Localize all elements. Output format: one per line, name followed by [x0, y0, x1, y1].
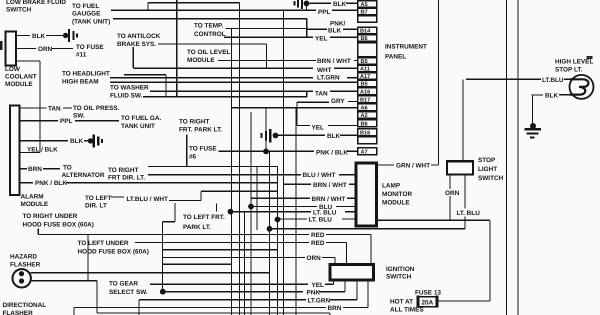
svg-text:TO HEADLIGHT: TO HEADLIGHT: [62, 71, 110, 78]
svg-text:YEL: YEL: [312, 282, 325, 289]
ground G3: [262, 129, 271, 143]
label TO FUEL GA. TANK UNIT: [121, 115, 161, 130]
wire dash to left dir lt: [111, 196, 124, 198]
svg-text:PARK LT.: PARK LT.: [183, 224, 211, 231]
wire PNK/BLK stub to B14: [343, 28, 358, 30]
wire LT. BLU pin1: [231, 211, 357, 213]
wire YEL to B6: [330, 36, 358, 38]
svg-text:A6: A6: [361, 106, 368, 112]
label PNK/ BLK: [328, 21, 345, 35]
svg-text:PNK/: PNK/: [330, 21, 345, 28]
wire TAN: [20, 107, 73, 109]
svg-text:YEL: YEL: [315, 36, 328, 43]
svg-text:BLK: BLK: [327, 133, 341, 140]
svg-text:ALARM: ALARM: [21, 194, 44, 201]
svg-text:YEL: YEL: [312, 125, 325, 132]
alarm module label: [21, 194, 49, 209]
svg-text:BRN: BRN: [328, 305, 342, 312]
svg-text:TO FUEL: TO FUEL: [72, 3, 99, 10]
wire to B5 row: [110, 81, 358, 83]
ground G4: [295, 0, 303, 9]
node LT.BLU junction: [228, 209, 234, 215]
svg-text:TO RIGHT: TO RIGHT: [179, 119, 210, 126]
wire PPL stub: [332, 9, 358, 11]
node PNK junction: [160, 289, 166, 295]
pin labels A5 B7 B14 B6 B5 A11 A17 B5 A16 B17 A6 A2 B6 B16 A7: [360, 2, 371, 156]
wire YEL lower to B6: [297, 125, 358, 127]
svg-text:B5: B5: [361, 82, 368, 88]
svg-text:TO GEAR: TO GEAR: [109, 281, 138, 288]
svg-text:BRN / WHT: BRN / WHT: [313, 182, 347, 189]
wire ORN ignition: [163, 258, 335, 265]
label TO LEFT FRT. PARK LT.: [183, 214, 225, 231]
svg-text:LT.GRN: LT.GRN: [317, 75, 340, 82]
wire LT. BLU out pin: [464, 175, 466, 229]
lamp monitor module: [356, 163, 377, 226]
wire washer to TAN: [150, 90, 313, 92]
svg-text:IGNITION: IGNITION: [386, 266, 415, 273]
label TO HEADLIGHT HIGH BEAM: [62, 71, 110, 86]
label HAZARD FLASHER: [10, 254, 41, 269]
wire firewall line 2: [517, 0, 519, 315]
label TO FUSE #6: [189, 146, 217, 161]
svg-text:COOLANT: COOLANT: [5, 74, 37, 81]
wire YEL/BLK: [20, 152, 41, 154]
wire G4 stem: [306, 3, 308, 10]
svg-text:DIR. LT: DIR. LT: [85, 203, 107, 210]
svg-text:LAMP: LAMP: [382, 183, 401, 190]
node H2 junction: [267, 226, 273, 232]
wire BLK alarm: [20, 140, 89, 142]
svg-text:MODULE: MODULE: [21, 201, 49, 208]
svg-text:RED: RED: [311, 232, 325, 239]
wire bus x244: [244, 212, 246, 315]
svg-text:LT.BLU / WHT: LT.BLU / WHT: [127, 196, 169, 203]
wire lt.blu/wht riser: [169, 191, 278, 200]
svg-text:HAZARD: HAZARD: [10, 254, 37, 261]
label HOT AT ALL TIMES: [390, 299, 424, 314]
wire to fuse 6: [218, 150, 266, 152]
svg-text:BRN: BRN: [28, 166, 42, 173]
wire switch top pin LT.BLU in: [462, 79, 464, 161]
svg-text:TO RIGHT UNDER: TO RIGHT UNDER: [23, 213, 78, 220]
wire ORN from low coolant module: [16, 48, 73, 50]
svg-text:GRY: GRY: [331, 98, 345, 105]
wire TAN stub to A16: [330, 90, 358, 92]
wire GRN/WHT: [377, 0, 439, 165]
svg-text:BLK: BLK: [70, 138, 84, 145]
wire bus x296: [295, 108, 297, 315]
wire hazard top: [31, 272, 270, 274]
label DIRECTIONAL FLASHER: [3, 302, 47, 315]
svg-text:ALL TIMES: ALL TIMES: [390, 307, 424, 314]
svg-text:TO RIGHT: TO RIGHT: [108, 167, 139, 174]
svg-text:HOT AT: HOT AT: [390, 299, 413, 306]
wire RED 2: [135, 243, 347, 265]
svg-text:BLU / WHT: BLU / WHT: [303, 172, 336, 179]
wire bus x266: [265, 108, 267, 152]
svg-text:LT. BLU: LT. BLU: [309, 217, 333, 224]
wire WHT stub to A11: [334, 67, 358, 69]
svg-text:PNK / BLK: PNK / BLK: [35, 180, 67, 187]
svg-text:#11: #11: [76, 52, 87, 59]
wire BRN ignition: [74, 280, 368, 315]
wire link y264: [163, 263, 232, 265]
wire firewall line 1: [506, 0, 508, 315]
svg-text:DIRECTIONAL: DIRECTIONAL: [3, 302, 47, 309]
instrument panel connector boxes: [358, 1, 377, 155]
wire to headlight: [124, 75, 166, 97]
svg-text:TAN: TAN: [48, 106, 61, 113]
wire bus x283: [283, 10, 285, 315]
svg-text:WHT: WHT: [317, 67, 332, 74]
svg-text:A16: A16: [360, 90, 370, 96]
label TO ALTERNATOR: [62, 165, 105, 180]
wire LT.GRN ignition: [139, 280, 357, 315]
svg-text:SWITCH: SWITCH: [6, 7, 32, 14]
svg-text:B7: B7: [361, 10, 368, 16]
svg-text:INSTRUMENT: INSTRUMENT: [385, 44, 427, 51]
svg-text:TO WASHER: TO WASHER: [110, 85, 149, 92]
wire gear bracket riser: [87, 235, 89, 281]
wire LT.GRN stub to A17: [347, 77, 358, 79]
svg-text:B6: B6: [361, 36, 368, 42]
svg-text:FLUID SW.: FLUID SW.: [110, 93, 143, 100]
wire to temp: [226, 28, 307, 30]
wire BLK high stop: [532, 95, 570, 124]
svg-text:PPL: PPL: [318, 9, 331, 16]
label TO ANTILOCK BRAKE SYS.: [117, 33, 161, 48]
wire BRN/WHT pin1: [284, 183, 357, 185]
svg-text:PANEL: PANEL: [385, 54, 406, 61]
node fuse6 junction: [263, 149, 269, 155]
wire BRN/WHT pin2: [251, 197, 356, 199]
svg-text:TO TEMP.: TO TEMP.: [194, 23, 223, 30]
wire ORN pin: [449, 175, 451, 221]
svg-text:GAUGGE: GAUGGE: [72, 11, 101, 18]
wire to LT.GRN: [110, 77, 313, 79]
svg-text:PNK / BLK: PNK / BLK: [316, 149, 348, 156]
svg-text:STOP LT.: STOP LT.: [555, 67, 583, 74]
ground G2: [88, 135, 102, 148]
wire link y249: [163, 249, 278, 251]
svg-text:HIGH BEAM: HIGH BEAM: [62, 79, 99, 86]
svg-text:MODULE: MODULE: [187, 57, 215, 64]
wire PNK ignition: [163, 280, 346, 292]
svg-text:A17: A17: [360, 74, 370, 80]
label TO OIL LEVEL MODULE: [187, 49, 231, 64]
svg-text:B17: B17: [360, 98, 370, 104]
wire bus x277: [277, 167, 279, 315]
svg-text:PNK: PNK: [307, 289, 321, 296]
wire LT.BLU high stop: [466, 78, 570, 80]
wire BRN/WHT stub: [354, 60, 358, 62]
wire PNK / BLK alarm: [20, 182, 278, 184]
svg-text:SWITCH: SWITCH: [386, 274, 412, 281]
svg-text:BLK: BLK: [545, 93, 559, 100]
svg-text:TO LEFT: TO LEFT: [85, 195, 112, 202]
low brake fluid switch label: [6, 0, 66, 14]
scan mark right edge: [587, 56, 593, 59]
wire RED 1 long: [38, 228, 371, 264]
wire BLU/WHT pin: [339, 174, 356, 176]
wire YEL ignition / gear select: [150, 280, 334, 284]
svg-text:LOW BRAKE FLUID: LOW BRAKE FLUID: [6, 0, 66, 6]
wire BLU pin: [251, 206, 356, 208]
svg-text:TO LEFT UNDER: TO LEFT UNDER: [78, 240, 129, 247]
svg-text:B14: B14: [360, 29, 371, 35]
wire fuel gauge upper branch: [148, 3, 240, 11]
wire park lt bracket: [148, 134, 278, 166]
wire LT. BLU pin2: [278, 218, 357, 220]
wire BLK to A5: [310, 2, 358, 4]
label TO RIGHT UNDER HOOD FUSE BOX (60A): [23, 213, 94, 229]
svg-text:TO FUEL GA.: TO FUEL GA.: [121, 115, 161, 122]
svg-text:LIGHT: LIGHT: [478, 166, 497, 173]
wire to antilock brake sys: [158, 44, 267, 68]
low coolant module label: [5, 66, 37, 88]
svg-text:#6: #6: [189, 154, 197, 161]
svg-text:ORN: ORN: [38, 46, 53, 53]
wire BLK to B16: [278, 134, 358, 136]
wire low coolant module lower to node: [16, 61, 40, 153]
label TO GEAR SELECT SW.: [109, 281, 148, 297]
label TO WASHER FLUID SW.: [110, 85, 149, 100]
wire fuse to x490: [437, 300, 490, 302]
svg-text:TO LEFT FRT.: TO LEFT FRT.: [183, 214, 225, 221]
label TO FUEL GAUGE (TANK UNIT): [72, 3, 110, 26]
wire oil level to BRN/WHT: [218, 60, 316, 62]
node G4 junction: [304, 1, 310, 7]
svg-text:TO FUSE: TO FUSE: [76, 44, 104, 51]
svg-text:FUSE 13: FUSE 13: [415, 290, 441, 297]
label TO RIGHT FRT DIR. LT.: [108, 167, 145, 182]
svg-text:ORN: ORN: [445, 190, 460, 197]
svg-text:SWITCH: SWITCH: [478, 175, 504, 182]
wire H2 under lamp module: [270, 228, 466, 230]
svg-text:TO OIL LEVEL: TO OIL LEVEL: [187, 49, 231, 56]
svg-text:STOP: STOP: [478, 157, 496, 164]
svg-text:CONTROL: CONTROL: [194, 31, 226, 38]
ignition switch: [330, 265, 374, 281]
wire bus x231: [231, 29, 233, 315]
svg-text:B5: B5: [361, 59, 368, 65]
svg-text:20A: 20A: [422, 300, 434, 307]
wire stub above TO LEFT FRT label: [216, 204, 218, 212]
wire bus x251: [250, 112, 252, 315]
wire antilock second to WHT: [133, 47, 313, 68]
high level stop lamp: [570, 75, 594, 99]
label STOP LIGHT SWITCH: [478, 157, 504, 182]
svg-text:ORN: ORN: [307, 255, 322, 262]
wire control: [224, 36, 313, 38]
wire PNK/BLK to A7: [266, 150, 358, 152]
wire tank unit branch: [113, 0, 307, 97]
wire frt dir lt to BLU/WHT: [148, 174, 301, 176]
wire BLK from low coolant module: [16, 35, 63, 37]
svg-text:A7: A7: [361, 150, 368, 156]
svg-text:MODULE: MODULE: [5, 81, 33, 88]
wire BRN: [20, 168, 61, 170]
label TO TEMP. CONTROL: [194, 23, 226, 39]
scan mark left edge: [0, 41, 3, 50]
wire fluid sw lower: [143, 91, 307, 97]
svg-text:BRN / WHT: BRN / WHT: [312, 196, 346, 203]
svg-text:TO: TO: [63, 165, 72, 172]
ground G5: [525, 123, 542, 137]
wire H1 lamp module to x490: [377, 220, 491, 301]
svg-text:FRT. PARK LT.: FRT. PARK LT.: [179, 127, 222, 134]
svg-text:A5: A5: [361, 2, 368, 8]
svg-text:BLK: BLK: [32, 33, 46, 40]
label INSTRUMENT PANEL: [385, 44, 427, 61]
wire bottom y313: [97, 313, 330, 315]
node LT.BLU2 junction: [275, 217, 281, 223]
svg-text:MONITOR: MONITOR: [382, 191, 412, 198]
svg-text:LT. BLU: LT. BLU: [457, 210, 481, 217]
label TO OIL PRESS. SW.: [73, 105, 120, 120]
label HIGH LEVEL STOP LT.: [555, 59, 593, 74]
svg-text:LT.GRN: LT.GRN: [308, 297, 331, 304]
svg-text:FLASHER: FLASHER: [3, 310, 34, 315]
svg-text:HOOD FUSE BOX (60A): HOOD FUSE BOX (60A): [23, 222, 94, 229]
wire GRY riser: [297, 102, 358, 126]
svg-text:TO ANTILOCK: TO ANTILOCK: [117, 33, 161, 40]
alarm module: [10, 106, 20, 196]
wire riser x240 top: [307, 19, 327, 38]
svg-text:B16: B16: [360, 131, 370, 137]
fuse 13 20A: [418, 296, 437, 308]
svg-text:PPL: PPL: [60, 118, 73, 125]
svg-text:(TANK UNIT): (TANK UNIT): [72, 19, 110, 26]
svg-text:FLASHER: FLASHER: [10, 262, 41, 269]
wire to fuel gauge / PPL feed: [111, 9, 316, 11]
wire bus x239: [239, 3, 241, 315]
label TO RIGHT FRT. PARK LT.: [179, 119, 222, 134]
svg-text:LT.BLU: LT.BLU: [542, 77, 564, 84]
svg-text:GRN / WHT: GRN / WHT: [396, 163, 430, 170]
svg-text:B6: B6: [361, 122, 368, 128]
ground G1: [63, 29, 77, 42]
svg-text:TO OIL PRESS.: TO OIL PRESS.: [73, 105, 120, 112]
svg-text:TO FUSE: TO FUSE: [189, 146, 217, 153]
wire PPL: [20, 120, 120, 122]
svg-text:BRAKE SYS.: BRAKE SYS.: [117, 41, 156, 48]
svg-text:TANK UNIT: TANK UNIT: [121, 123, 155, 130]
stop light switch: [447, 161, 473, 174]
svg-text:LOW: LOW: [5, 66, 21, 73]
wire to A6: [232, 107, 358, 109]
label TO FUSE #11: [76, 44, 104, 59]
label TO LEFT UNDER HOOD FUSE BOX (60A): [78, 240, 149, 256]
wire hazard bottom: [31, 281, 97, 313]
svg-text:A2: A2: [361, 113, 368, 119]
wire bus x257: [256, 167, 258, 231]
svg-text:TAN: TAN: [315, 91, 328, 98]
svg-text:BRN / WHT: BRN / WHT: [317, 58, 351, 65]
label IGNITION SWITCH: [386, 266, 415, 281]
svg-text:SELECT SW.: SELECT SW.: [109, 289, 148, 296]
svg-text:FRT DIR. LT.: FRT DIR. LT.: [108, 175, 145, 182]
svg-text:SW.: SW.: [73, 113, 85, 120]
label TO LEFT DIR. LT: [85, 195, 112, 210]
svg-text:BLK: BLK: [328, 28, 342, 35]
svg-text:RED: RED: [311, 240, 325, 247]
svg-text:BLK: BLK: [333, 1, 347, 8]
svg-text:ALTERNATOR: ALTERNATOR: [62, 172, 105, 179]
low coolant module: [6, 32, 17, 66]
node BLU junction: [248, 204, 254, 210]
svg-text:MODULE: MODULE: [382, 200, 410, 207]
node G3 junction: [273, 133, 279, 139]
svg-text:A11: A11: [360, 67, 370, 73]
lamp monitor module label: [382, 183, 412, 207]
wire staircase park lt: [163, 203, 176, 292]
hazard flasher symbol: [13, 269, 31, 287]
svg-text:HIGH LEVEL: HIGH LEVEL: [555, 59, 593, 66]
